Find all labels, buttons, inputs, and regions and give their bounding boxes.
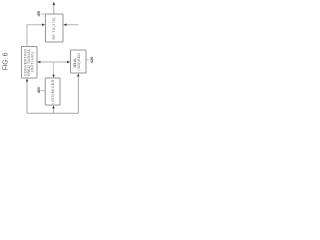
svg-text:450: 450 <box>37 87 41 93</box>
svg-text:(450)MIXER: (450)MIXER <box>51 79 55 103</box>
svg-text:470: 470 <box>37 11 41 17</box>
svg-text:(420)GEN: (420)GEN <box>77 53 81 71</box>
svg-text:420: 420 <box>90 57 94 64</box>
svg-text:UNIT(440): UNIT(440) <box>31 52 35 72</box>
svg-text:RF TX(470): RF TX(470) <box>52 18 56 40</box>
svg-text:FIG. 6: FIG. 6 <box>2 52 9 70</box>
